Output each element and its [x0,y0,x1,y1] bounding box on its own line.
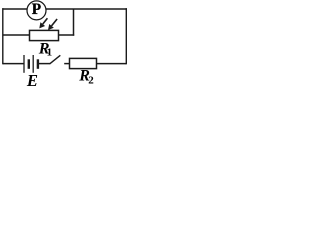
wire R1 branch vertical up to top wire [73,9,75,36]
svg-text:2: 2 [88,75,94,87]
wire R1 branch left [3,34,30,36]
light arrow 1 into R1 [39,18,47,28]
wire right edge [125,8,127,64]
wire R2 to bottom-right corner [97,63,127,65]
label R2 [78,68,94,87]
resistor R2 body [70,58,97,68]
switch right contact wire [64,63,70,65]
light arrow 2 into R1 [48,19,57,30]
photoresistor R1 body [30,30,59,40]
battery E plate long 1 [23,55,25,73]
svg-text:P: P [32,1,41,18]
wire battery to switch pivot [39,63,50,65]
op meter P circle U1 [27,1,46,20]
wire R1 branch right [59,34,75,36]
battery E plate short 1 [28,59,30,69]
wire top-left (left node to meter P) [3,8,27,10]
svg-text:1: 1 [47,47,53,59]
svg-text:E: E [26,71,38,86]
label R1 [38,40,52,59]
wire left edge [2,8,4,64]
wire bottom-left (left node to battery) [3,63,24,65]
wire top-right (meter P to top-right corner) [46,8,126,10]
battery E plate long 2 [32,55,34,73]
switch S blade (open) [50,55,61,64]
battery E plate short 2 [37,59,39,69]
